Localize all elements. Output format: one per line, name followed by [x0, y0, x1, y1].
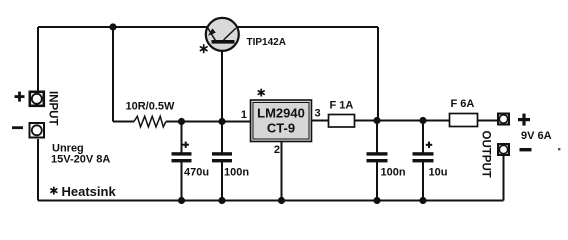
svg-text:INPUT: INPUT: [47, 91, 59, 126]
svg-text:F 1A: F 1A: [330, 100, 354, 112]
svg-text:100n: 100n: [381, 167, 406, 179]
svg-text:CT-9: CT-9: [267, 121, 295, 136]
svg-text:3: 3: [315, 108, 321, 120]
svg-text:9V 6A: 9V 6A: [521, 130, 552, 142]
svg-text:2: 2: [274, 144, 280, 156]
svg-text:470u: 470u: [184, 167, 209, 179]
svg-text:15V-20V 8A: 15V-20V 8A: [51, 154, 110, 166]
svg-text:OUTPUT: OUTPUT: [480, 131, 492, 178]
svg-text:1: 1: [241, 109, 247, 121]
svg-text:10R/0.5W: 10R/0.5W: [126, 101, 176, 113]
svg-text:Heatsink: Heatsink: [62, 184, 117, 199]
svg-text:LM2940: LM2940: [257, 106, 305, 121]
svg-text:100n: 100n: [224, 167, 249, 179]
svg-text:10u: 10u: [429, 167, 448, 179]
svg-text:TIP142A: TIP142A: [247, 37, 286, 48]
svg-text:F 6A: F 6A: [451, 98, 475, 110]
